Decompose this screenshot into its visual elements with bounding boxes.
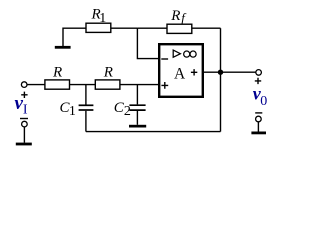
svg-text:R: R xyxy=(170,8,180,24)
svg-text:1: 1 xyxy=(69,104,76,119)
svg-text:A: A xyxy=(174,65,186,82)
svg-text:0: 0 xyxy=(260,94,267,109)
svg-text:2: 2 xyxy=(124,104,131,119)
svg-text:I: I xyxy=(23,103,28,118)
svg-text:1: 1 xyxy=(99,11,106,26)
svg-text:R: R xyxy=(52,65,62,81)
svg-text:R: R xyxy=(103,64,113,80)
